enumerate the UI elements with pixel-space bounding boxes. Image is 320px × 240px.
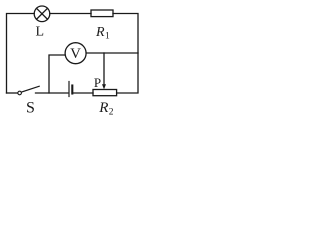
svg-text:R: R [98, 100, 108, 116]
battery [68, 82, 70, 97]
slider arrowhead [102, 84, 106, 89]
rheostat R2 [93, 90, 117, 96]
switch S [18, 91, 22, 95]
svg-text:S: S [26, 99, 35, 116]
slider wire P [103, 53, 105, 85]
svg-text:V: V [70, 46, 81, 62]
svg-text:R: R [95, 25, 105, 40]
resistor R1 [91, 10, 113, 17]
svg-text:P: P [94, 75, 101, 90]
wire voltmeter left branch [49, 55, 65, 93]
wire switch to left rail [7, 92, 18, 94]
wire voltmeter right branch [86, 52, 138, 54]
wire top-left segment [7, 14, 35, 94]
voltmeter V [65, 43, 86, 64]
wire R1 to right rail [113, 14, 138, 94]
lamp L [34, 6, 50, 22]
svg-text:1: 1 [105, 32, 110, 42]
wire lamp to R1 [50, 13, 91, 15]
svg-text:L: L [36, 25, 45, 40]
svg-text:2: 2 [109, 107, 114, 116]
wire battery to switch [36, 92, 68, 94]
wire R2 to battery [74, 92, 94, 94]
